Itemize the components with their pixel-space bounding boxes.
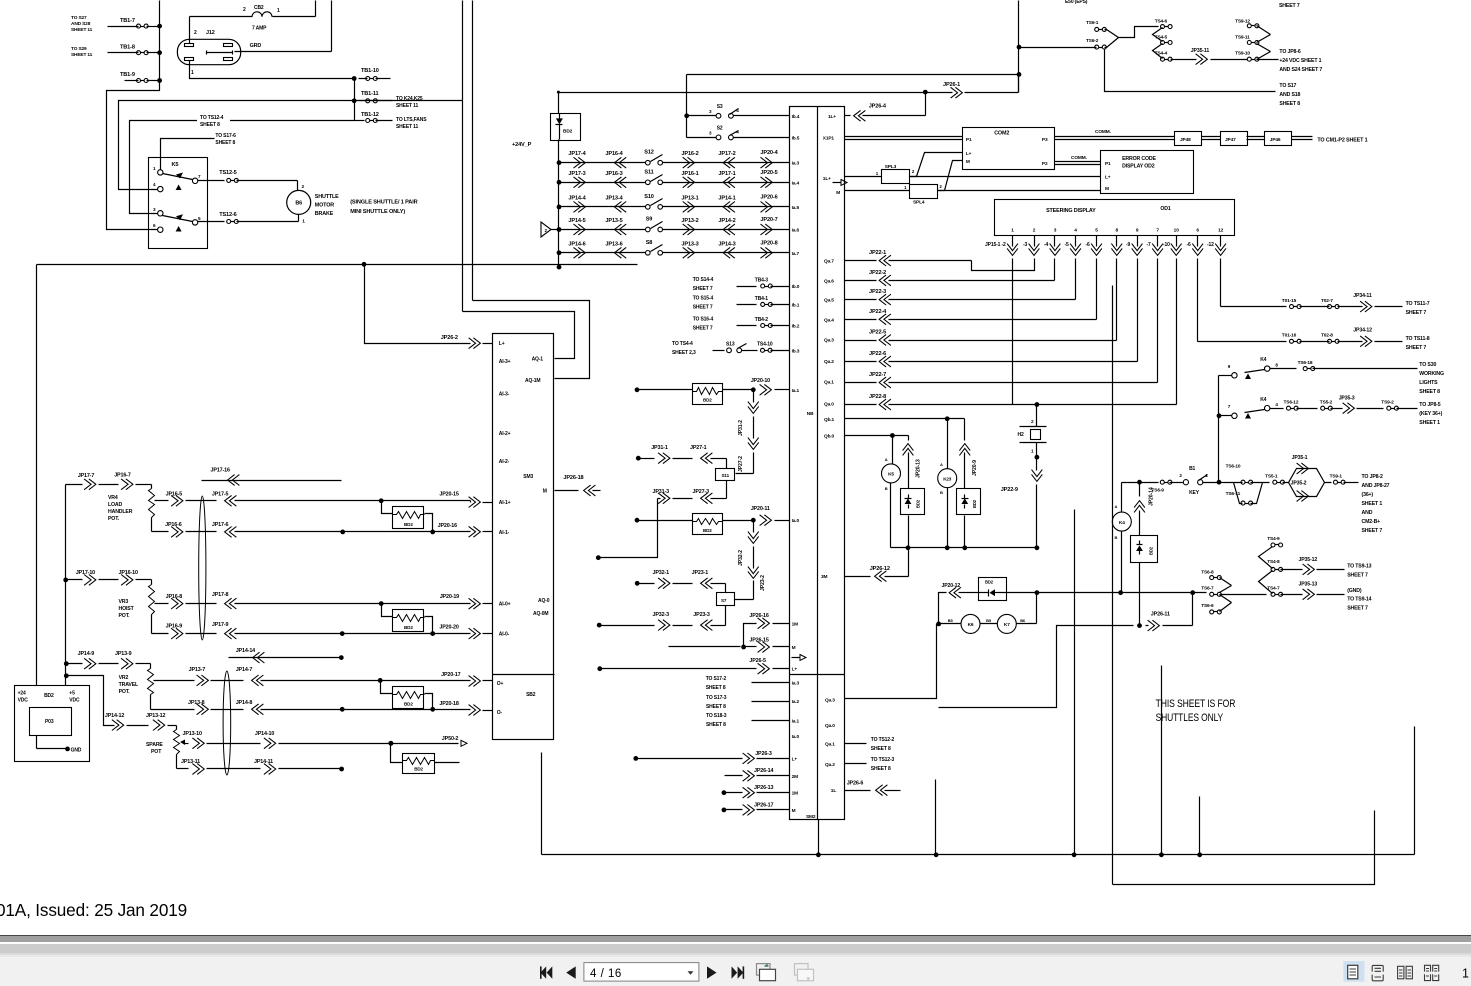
pot VR2 [148, 669, 154, 695]
relay contacts K6 K7 [1036, 593, 1038, 624]
connector JP23-2 [748, 567, 759, 574]
wire AQ-1M net [472, 1, 474, 301]
toolbar next view icon (disabled) [795, 964, 814, 981]
wire VR4 wiper row [155, 500, 169, 502]
wire disp pin9 [1137, 263, 1139, 362]
connector JP26-6 [845, 790, 871, 792]
row JP32-3 [597, 623, 602, 628]
pot VR4 top row [66, 484, 83, 486]
wire spare wiper row [185, 743, 189, 745]
connector JP20-12 [939, 593, 947, 624]
svg-text:4 / 16: 4 / 16 [590, 968, 622, 980]
resistor BD2 VR3 [382, 604, 393, 617]
toolbar last page button [732, 966, 745, 978]
node TB1-12 [355, 120, 365, 122]
connector JP20-9 [964, 419, 966, 441]
toolbar page box 4/16 [584, 963, 699, 982]
wire left rail y264 [36, 265, 38, 686]
relay K5 box [149, 158, 208, 249]
ladder row Ia.6 [557, 227, 562, 232]
connector JP20-14 [1137, 480, 1142, 485]
wire vert x1161 [1161, 666, 1163, 855]
pot VR3 [149, 585, 155, 615]
connector JP26-1 [923, 90, 928, 95]
row JP31-3 [599, 499, 658, 558]
row JP32-1 [635, 581, 640, 586]
wire B6 row to TS4 [1220, 594, 1267, 596]
flag 2 [541, 222, 551, 237]
wire spare low row [177, 768, 189, 770]
horn H2 [1036, 405, 1038, 427]
wire left bus lower [65, 485, 67, 686]
connector JP35-1 JP35-2 diamond [1283, 469, 1325, 483]
wire K5 pin6 feed [107, 81, 160, 230]
connector JP26-5 [597, 666, 602, 671]
module steering display OD1 [995, 200, 1235, 236]
wire 24V bus [558, 140, 560, 268]
wire disp pin6 [1197, 263, 1199, 342]
wire VR3 low row [152, 633, 169, 635]
wire J12 pin2 to CB2 [189, 17, 191, 44]
diode box BD2 B6 [979, 578, 1007, 601]
layout icon two page continuous [1425, 965, 1439, 980]
diode box BD2 K4 [1131, 536, 1158, 563]
wire JP46 out [1292, 136, 1313, 138]
wire TS6-2 down [1105, 49, 1276, 92]
wire CB2 to top [315, 1, 317, 17]
wire K5 pin4 net [119, 101, 355, 190]
pot VR2 top row [64, 661, 69, 666]
connector J12 [177, 39, 240, 64]
row JP31-1 [636, 456, 641, 461]
wire J12 pin1 to TB1-10 [190, 61, 355, 79]
connector JP14-14 [229, 657, 342, 659]
resistor BD2 VR2 [381, 681, 393, 694]
wire right vert [1414, 727, 1416, 855]
wire bottom rail [541, 753, 543, 855]
module ERROR CODE OD2 [1101, 151, 1194, 194]
wire AQ-1 net [462, 1, 464, 312]
wire right vert to top [1018, 1, 1020, 93]
wire Qb.0 row [845, 435, 909, 437]
node S3 dot [684, 113, 689, 118]
toolbar background bands [0, 935, 1471, 936]
wire relay rail [891, 547, 1037, 549]
cable shield VR2 [223, 671, 231, 775]
wire Qa.3 row [845, 624, 937, 699]
switch B1 KEY row [1122, 482, 1159, 484]
node TS12-6 [198, 221, 225, 223]
layout icon single page (selected) [1343, 961, 1364, 982]
wire bus TB1-10 to 12 [354, 79, 356, 121]
connector JP34-12 row [1198, 341, 1287, 343]
connector JP48 [1175, 132, 1202, 146]
block M arrow [833, 182, 841, 184]
diode box BD2 K5 [901, 489, 925, 515]
wire disp pin10 [1176, 263, 1178, 405]
toolbar previous view icon [757, 964, 776, 981]
pot VR4 [149, 489, 155, 518]
wire stub x935 [935, 780, 937, 855]
wire disp pin1 [1012, 263, 1014, 405]
relay K4 coil [1121, 483, 1123, 513]
toolbar prev page button [566, 966, 576, 978]
module COM2 [963, 128, 1055, 170]
pot VR3 top row [63, 578, 68, 583]
wire block bottom [818, 820, 820, 855]
wire K5 pin3 net [130, 121, 355, 214]
power box PD3 [15, 686, 90, 762]
cable shield VR4 [199, 496, 206, 640]
diode box BD2 K23 [957, 489, 981, 515]
wire JP48-47 [1202, 136, 1221, 138]
stub Qa.1 lower [845, 743, 867, 745]
ladder row Ia.5 [557, 205, 562, 210]
motor brake B6 [297, 181, 299, 191]
connector JP27-2 [748, 438, 759, 445]
connector JP46 [1265, 132, 1292, 146]
wire disp pin3 [1054, 263, 1056, 281]
wire J12 GRD [235, 51, 332, 53]
connector JP26-18 [555, 490, 579, 492]
toolbar first page button [540, 966, 552, 978]
connector JP17-16 [202, 480, 342, 482]
connector JP50-2 [391, 743, 459, 745]
wire disp pin12 [1220, 263, 1222, 307]
wire X1P1 COMM pair [845, 136, 963, 138]
wire disp pin5 [1096, 263, 1098, 320]
block M arrow lower [792, 657, 801, 659]
wire VR2 wiper row [154, 680, 195, 682]
wire vertical bus TB1 top [159, 1, 161, 81]
toolbar next page button [707, 966, 717, 978]
wire disp pin4 [1075, 263, 1077, 300]
wire vert x1199 [1199, 797, 1201, 855]
node rail dots [934, 852, 939, 857]
controller block X1P1 outline [790, 107, 845, 820]
wire Qb.1 row [845, 418, 965, 420]
connector JP26-13 [722, 790, 727, 795]
switch box S11 [716, 469, 735, 481]
connector JP26-15 [669, 646, 741, 648]
wire disp pin7 [1157, 263, 1159, 383]
layout icon continuous [1372, 965, 1383, 980]
connector JP20-13 [908, 436, 910, 441]
node TB1-10 [352, 76, 357, 81]
wire disp pin8 [1116, 263, 1118, 341]
wire VR3 wiper row [155, 603, 169, 605]
wire VR2 low row [151, 709, 195, 711]
switch box S7 [717, 593, 735, 606]
wire COMM right pair [1055, 136, 1175, 138]
connector JP34-11 row [1221, 306, 1287, 308]
resistor BD2 JP50 [391, 744, 403, 763]
relay K5 coil [892, 436, 894, 464]
ladder row Ia.3 [557, 160, 562, 165]
node bus bottom dot [557, 265, 562, 270]
wire VR4 low row [152, 531, 169, 533]
connector JP32-2 [753, 521, 755, 533]
wire 24V top [558, 93, 560, 114]
wire disp pin2 [972, 261, 1035, 271]
ladder row Ia.4 [557, 180, 562, 185]
diode box BD2 24V [551, 114, 581, 141]
node TB1-11 [352, 98, 357, 103]
connector JP26-14 [725, 775, 743, 777]
row Ia.0 JP20-11 [635, 518, 640, 523]
connector JP47 [1221, 132, 1248, 146]
relay K23 coil [947, 419, 949, 469]
wire JP26-2 riser [365, 265, 471, 344]
resistor BD2 VR4 [382, 501, 393, 514]
stub Qa.2 lower [845, 763, 867, 765]
connector JP22-9 [1036, 458, 1038, 471]
spare pot row [64, 673, 69, 678]
splice SPL4 [845, 190, 910, 192]
wire vert x1074 [1074, 510, 1076, 855]
connector JP26-17 [722, 808, 727, 813]
splice SPL3 [845, 176, 882, 178]
connector JP26-3 [633, 756, 638, 761]
connector JP26-11 [939, 626, 1134, 708]
node H2 tap [1035, 402, 1040, 407]
wire K5 pin1 net [161, 139, 215, 170]
pot spare [174, 730, 180, 755]
wire B6 row right [1037, 592, 1121, 594]
connector JP26-12 [845, 576, 871, 578]
wire K4 switch feed [1218, 376, 1220, 483]
module SM3 SB2 block [493, 334, 554, 740]
wire GRD to top [331, 1, 333, 52]
row Ia.1 JP20-10 [635, 387, 640, 392]
node TS12-5 [198, 180, 225, 182]
ladder row Ia.7 [557, 250, 562, 255]
wire COM2 F2 pair [1055, 161, 1101, 163]
wire long mid vertical [1112, 286, 1114, 885]
wire 24V upper line [686, 75, 688, 138]
connector JP31-2 [753, 390, 755, 403]
svg-text:1: 1 [1462, 967, 1469, 981]
label TO TS12-4 SHEET 8 [197, 113, 230, 126]
wire JP47-46 [1247, 136, 1265, 138]
layout icon two pages [1398, 966, 1413, 979]
wire rail2 [1113, 811, 1375, 885]
node rail dot x364 [362, 262, 367, 267]
